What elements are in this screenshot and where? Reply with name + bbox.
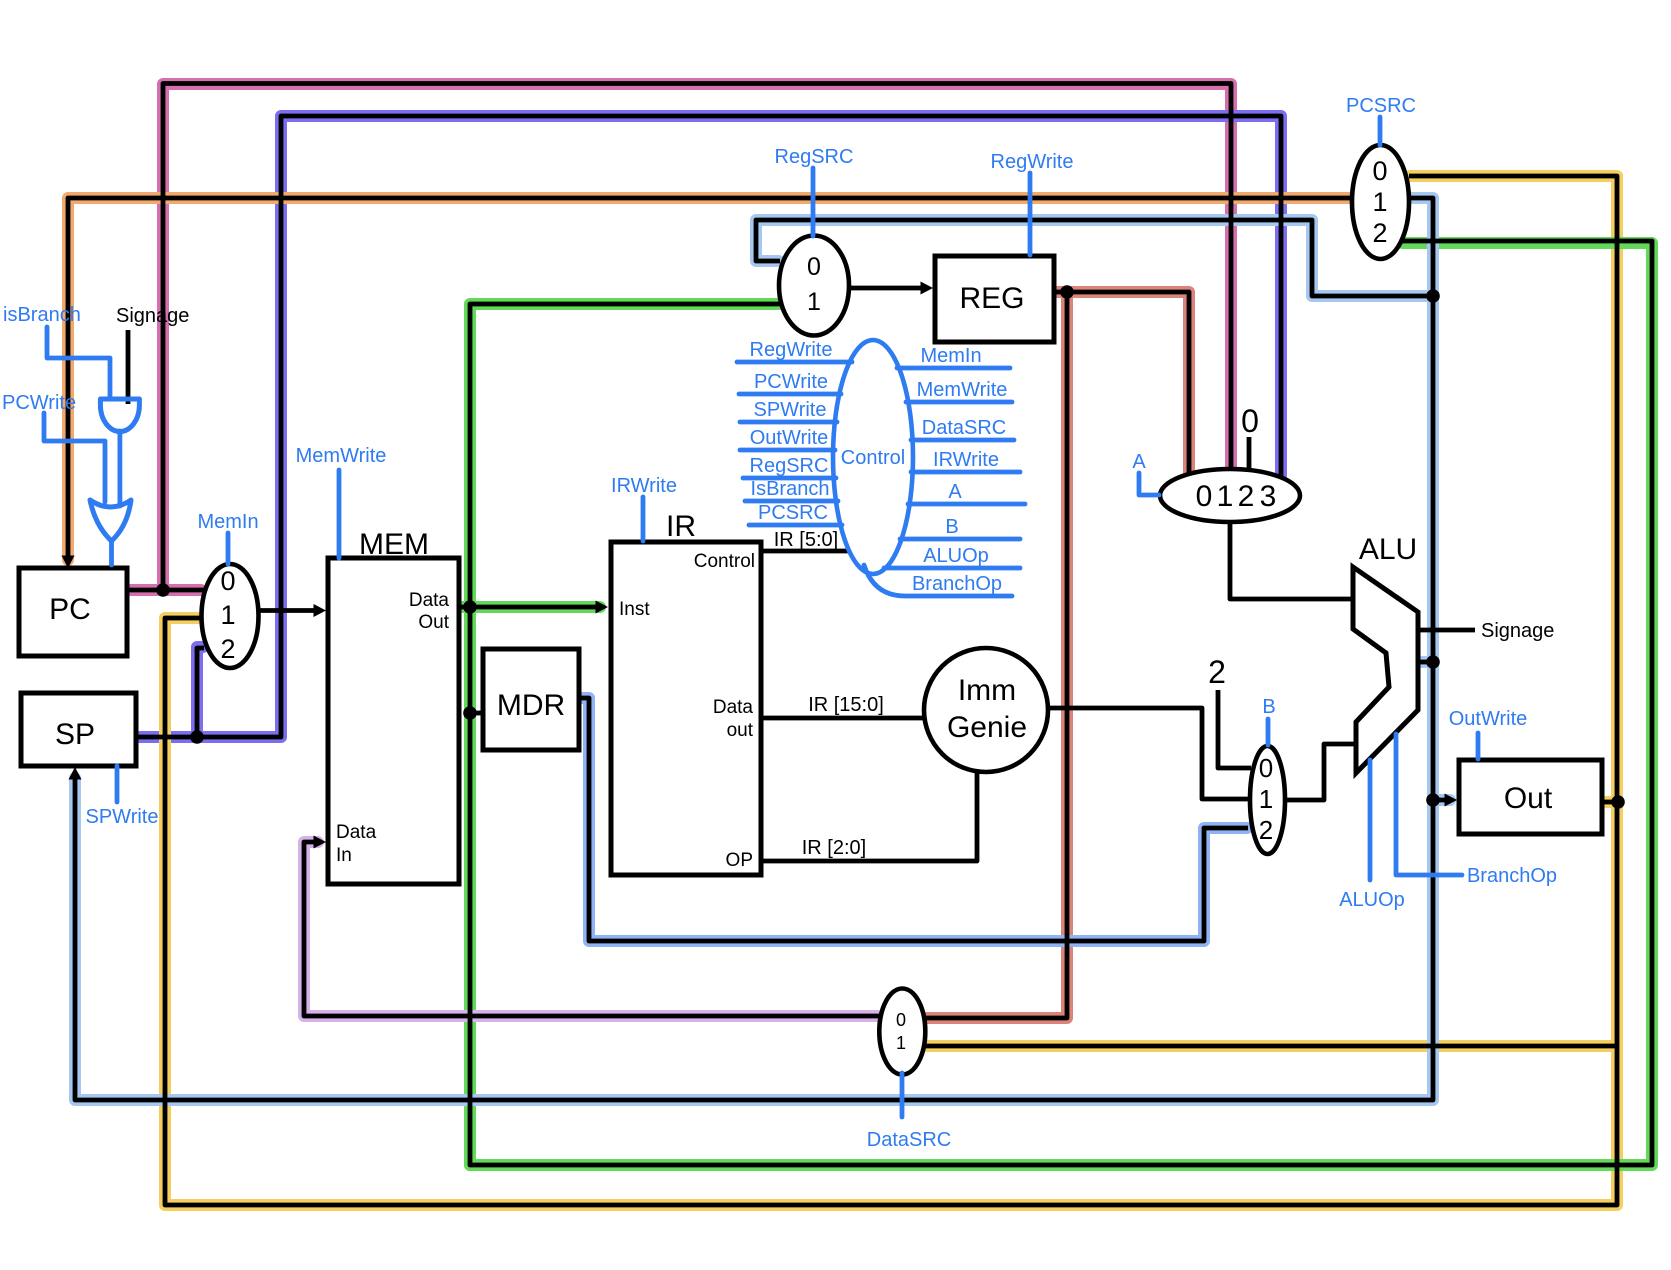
control pin B (right) bbox=[900, 516, 1020, 539]
register IR bbox=[611, 542, 761, 875]
svg-text:0: 0 bbox=[1241, 403, 1259, 439]
svg-text:3: 3 bbox=[1260, 480, 1277, 513]
svg-text:1: 1 bbox=[807, 288, 821, 316]
wire highlight salmon REG-out net bbox=[927, 292, 1189, 1018]
wire ALU result vertical bus with SP writeback bbox=[69, 198, 1434, 1100]
wire highlight green MEM-data net bbox=[462, 243, 1652, 1165]
svg-text:1: 1 bbox=[1217, 480, 1234, 513]
svg-text:MemIn: MemIn bbox=[197, 511, 258, 533]
signal RegSRC bbox=[775, 146, 854, 236]
wire MEM data out to IR Inst bbox=[461, 601, 608, 614]
control pin PCSRC (left) bbox=[749, 502, 842, 525]
label constant 2 bbox=[1208, 654, 1226, 690]
control pin RegWrite (left) bbox=[737, 339, 852, 362]
svg-text:0: 0 bbox=[807, 253, 821, 281]
svg-text:Out: Out bbox=[418, 612, 449, 633]
svg-text:DataSRC: DataSRC bbox=[922, 417, 1006, 439]
wire PC output to MemAddr mux input 0 bbox=[126, 588, 204, 593]
junction ALU result branch bbox=[1426, 289, 1440, 303]
junction PC output bbox=[156, 583, 170, 597]
wire Signage input stub to AND gate bbox=[126, 330, 131, 404]
wire PC value riser to ALU-A mux bbox=[163, 84, 1231, 591]
junction ALU output bbox=[1426, 655, 1440, 669]
wire MEM data tap to MDR bbox=[470, 711, 486, 716]
svg-text:ALUOp: ALUOp bbox=[1339, 889, 1405, 911]
label constant 0 bbox=[1241, 403, 1259, 439]
wire constant 2 to ALU-B mux input 0 bbox=[1218, 690, 1251, 768]
signal PCWrite bbox=[2, 392, 105, 502]
memory MEM bbox=[328, 558, 459, 884]
signal RegWrite bbox=[991, 151, 1074, 255]
svg-text:1: 1 bbox=[896, 1033, 906, 1053]
svg-text:SPWrite: SPWrite bbox=[754, 399, 827, 421]
svg-text:MemWrite: MemWrite bbox=[296, 445, 387, 467]
svg-text:Data: Data bbox=[336, 822, 377, 843]
signal isBranch bbox=[3, 304, 110, 396]
svg-text:0: 0 bbox=[1372, 156, 1387, 186]
control pin OutWrite (left) bbox=[740, 427, 835, 450]
ALU U1 bbox=[1353, 567, 1418, 773]
svg-text:A: A bbox=[948, 481, 962, 503]
register PC bbox=[19, 568, 127, 656]
signal BranchOp bbox=[1396, 734, 1557, 887]
label IR Inst pin bbox=[619, 599, 650, 620]
svg-text:0: 0 bbox=[896, 1010, 906, 1030]
label Signage input bbox=[116, 305, 189, 327]
register MDR bbox=[483, 649, 579, 750]
control pin BranchOp (right) bbox=[864, 565, 1012, 596]
control pin DataSRC (right) bbox=[911, 417, 1014, 440]
svg-text:PCWrite: PCWrite bbox=[754, 371, 828, 393]
signal MemIn bbox=[197, 511, 258, 564]
svg-text:IsBranch: IsBranch bbox=[751, 478, 830, 500]
register Out bbox=[1459, 760, 1602, 834]
wire RegSRC mux output to REG bbox=[849, 282, 933, 295]
label MEM Data Out pin bbox=[409, 590, 450, 633]
control pin IRWrite (right) bbox=[911, 449, 1020, 472]
svg-text:OP: OP bbox=[726, 850, 753, 871]
wire SP output bus to ALU-A mux bbox=[137, 116, 1281, 737]
svg-text:0: 0 bbox=[1196, 480, 1213, 513]
signal ALUOp bbox=[1339, 760, 1405, 911]
svg-text:MDR: MDR bbox=[497, 689, 565, 722]
control pin SPWrite (left) bbox=[740, 399, 837, 422]
signal DataSRC bbox=[867, 1073, 951, 1151]
junction Out input tap bbox=[1426, 793, 1440, 807]
wire IR control field IR[5:0] to Control bbox=[761, 549, 852, 554]
svg-text:Data: Data bbox=[409, 590, 450, 611]
svg-text:2: 2 bbox=[1208, 654, 1226, 690]
svg-text:In: In bbox=[336, 845, 352, 866]
mux RegSRC 0/1 bbox=[779, 236, 849, 336]
svg-text:MemWrite: MemWrite bbox=[917, 379, 1008, 401]
wire IR data out IR[15:0] to Imm Genie bbox=[761, 716, 926, 721]
svg-text:DataSRC: DataSRC bbox=[867, 1129, 951, 1151]
svg-text:2: 2 bbox=[1259, 815, 1273, 845]
svg-text:BranchOp: BranchOp bbox=[912, 573, 1002, 595]
svg-text:Data: Data bbox=[713, 697, 754, 718]
svg-text:MemIn: MemIn bbox=[920, 345, 981, 367]
control pin RegSRC (left) bbox=[743, 455, 836, 478]
svg-text:2: 2 bbox=[1238, 480, 1255, 513]
svg-text:BranchOp: BranchOp bbox=[1467, 865, 1557, 887]
Imm Genie sign extender bbox=[924, 648, 1048, 772]
control pin A (right) bbox=[908, 481, 1025, 504]
svg-text:IR [5:0]: IR [5:0] bbox=[774, 529, 838, 551]
svg-text:OutWrite: OutWrite bbox=[1449, 708, 1528, 730]
wire Out value branch to DataSRC mux input 1 bbox=[925, 1044, 1617, 1049]
control unit ellipse bbox=[833, 340, 913, 574]
label IR bbox=[666, 510, 696, 543]
signal MemWrite bbox=[296, 445, 387, 558]
signal SPWrite bbox=[86, 766, 159, 828]
wire ALU-A mux output to ALU bbox=[1230, 521, 1355, 599]
register file REG bbox=[935, 256, 1054, 342]
svg-text:1: 1 bbox=[1259, 784, 1273, 814]
svg-text:PCSRC: PCSRC bbox=[1346, 95, 1416, 117]
svg-text:Inst: Inst bbox=[619, 599, 650, 620]
label MEM Data In pin bbox=[336, 822, 377, 866]
svg-text:1: 1 bbox=[1372, 187, 1387, 217]
wire highlight purple SP-value net bbox=[139, 116, 1281, 737]
control pin ALUOp (right) bbox=[884, 545, 1020, 568]
label IR Control pin bbox=[694, 551, 755, 572]
svg-text:IRWrite: IRWrite bbox=[933, 449, 999, 471]
control pin MemWrite (right) bbox=[906, 379, 1012, 402]
wire IR OP field IR[2:0] to Imm Genie bbox=[761, 770, 977, 861]
svg-text:Genie: Genie bbox=[947, 711, 1027, 744]
wire Out register output stub bbox=[1602, 800, 1617, 805]
label bus IR [5:0] bbox=[774, 529, 838, 551]
label MEM bbox=[359, 528, 429, 561]
junction MEM data out bbox=[463, 600, 477, 614]
control pin MemIn (right) bbox=[897, 345, 1010, 368]
junction MDR tap bbox=[463, 706, 477, 720]
wire highlight pink PC-value net bbox=[128, 84, 1231, 590]
svg-text:IR: IR bbox=[666, 510, 696, 543]
svg-text:Signage: Signage bbox=[116, 305, 189, 327]
svg-text:1: 1 bbox=[220, 600, 235, 630]
wire ALU result branch to RegSRC mux input 0 bbox=[756, 220, 1433, 296]
svg-text:RegSRC: RegSRC bbox=[775, 146, 854, 168]
mux PCSRC 0/1/2 bbox=[1352, 145, 1409, 259]
signal PCSRC bbox=[1346, 95, 1416, 145]
label Signage output bbox=[1481, 620, 1554, 642]
label IR OP pin bbox=[726, 850, 753, 871]
svg-text:IRWrite: IRWrite bbox=[611, 475, 677, 497]
OR gate G2 bbox=[90, 500, 131, 565]
svg-text:RegWrite: RegWrite bbox=[750, 339, 833, 361]
label ALU bbox=[1359, 533, 1417, 566]
svg-text:IR [15:0]: IR [15:0] bbox=[808, 694, 884, 716]
wire ALU-B mux output to ALU bbox=[1283, 744, 1358, 800]
wire ALU output stub bbox=[1420, 660, 1433, 665]
label IR Data out pin bbox=[713, 697, 754, 741]
svg-text:RegWrite: RegWrite bbox=[991, 151, 1074, 173]
svg-text:MEM: MEM bbox=[359, 528, 429, 561]
svg-text:RegSRC: RegSRC bbox=[750, 455, 829, 477]
svg-text:IR [2:0]: IR [2:0] bbox=[802, 837, 866, 859]
svg-text:Signage: Signage bbox=[1481, 620, 1554, 642]
svg-text:Imm: Imm bbox=[958, 674, 1016, 707]
wire Imm Genie output to ALU-B mux input 1 bbox=[1047, 708, 1251, 799]
wire highlight orange PCSRC-to-PC net bbox=[68, 198, 1350, 560]
wire PCSRC mux output to PC bbox=[62, 198, 1352, 568]
wire MEM data bus to PCSRC mux input 2 bbox=[470, 241, 1652, 1165]
wire constant 0 to ALU-A mux bbox=[1247, 437, 1252, 472]
svg-text:Out: Out bbox=[1504, 782, 1553, 815]
wire MemAddr mux output to MEM bbox=[258, 604, 326, 617]
AND gate G1 bbox=[100, 399, 139, 506]
control pin IsBranch (left) bbox=[745, 478, 838, 501]
svg-text:B: B bbox=[1262, 696, 1275, 718]
svg-text:Control: Control bbox=[841, 447, 905, 469]
svg-text:OutWrite: OutWrite bbox=[750, 427, 829, 449]
signal OutWrite bbox=[1449, 708, 1528, 759]
wire highlight lightblue ALU-result net bbox=[75, 198, 1450, 1100]
svg-text:0: 0 bbox=[220, 566, 235, 596]
junction SP output bbox=[190, 730, 204, 744]
wire REG output to ALU-A mux input bbox=[1055, 292, 1189, 474]
svg-text:ALUOp: ALUOp bbox=[923, 545, 989, 567]
label bus IR [2:0] bbox=[802, 837, 866, 859]
mux DataSRC 0/1 bbox=[879, 989, 925, 1075]
wire REG output branch to DataSRC mux input 0 bbox=[925, 292, 1067, 1018]
svg-text:2: 2 bbox=[220, 634, 235, 664]
svg-text:2: 2 bbox=[1372, 218, 1387, 248]
signal IRWrite bbox=[611, 475, 677, 541]
wire SP branch to MemAddr mux input 2 bbox=[197, 648, 204, 737]
svg-text:0: 0 bbox=[1259, 753, 1273, 783]
svg-text:Control: Control bbox=[694, 551, 755, 572]
wire highlight yellow Out-value net bbox=[165, 176, 1617, 1205]
wire ALU signage flag stub bbox=[1420, 628, 1475, 633]
wire highlight blue MDR-to-Bmux net bbox=[582, 698, 1247, 941]
svg-text:PCWrite: PCWrite bbox=[2, 392, 76, 414]
signal A bbox=[1132, 451, 1159, 495]
wire Out value to PCSRC mux input 0 and PC-addr mux input 1 bbox=[165, 176, 1617, 1205]
svg-text:out: out bbox=[727, 720, 754, 741]
junction REG output bbox=[1060, 285, 1074, 299]
svg-text:ALU: ALU bbox=[1359, 533, 1417, 566]
svg-text:SPWrite: SPWrite bbox=[86, 806, 159, 828]
mux ALU-B 0/1/2 bbox=[1250, 746, 1285, 854]
register SP bbox=[21, 693, 136, 766]
control pin PCWrite (left) bbox=[739, 371, 841, 394]
junction Out output on yellow bus bbox=[1611, 795, 1625, 809]
wire ALU result to Out register bbox=[1433, 794, 1457, 807]
wire MDR output to ALU-B mux input 2 bbox=[581, 698, 1248, 941]
svg-text:B: B bbox=[945, 516, 958, 538]
svg-text:PCSRC: PCSRC bbox=[758, 502, 828, 524]
wire MEM data riser to RegSRC mux input 1 bbox=[470, 304, 780, 607]
svg-text:PC: PC bbox=[49, 593, 91, 626]
mux MemAddr 0/1/2 bbox=[202, 564, 259, 668]
svg-text:REG: REG bbox=[959, 282, 1024, 315]
label bus IR [15:0] bbox=[808, 694, 884, 716]
svg-text:A: A bbox=[1132, 451, 1146, 473]
wire highlight lavender DataSRC-to-MEM net bbox=[304, 842, 878, 1016]
svg-text:isBranch: isBranch bbox=[3, 304, 81, 326]
mux ALU-A 0 1 2 3 bbox=[1160, 469, 1300, 522]
wire DataSRC mux output to MEM data in bbox=[304, 836, 879, 1017]
signal B bbox=[1262, 696, 1275, 745]
svg-text:SP: SP bbox=[55, 718, 95, 751]
